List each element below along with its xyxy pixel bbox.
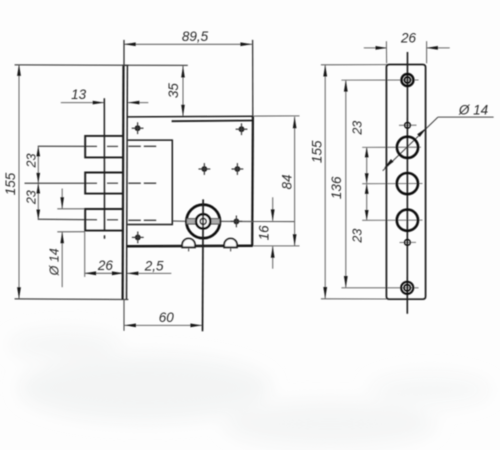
- svg-text:23: 23: [351, 229, 365, 244]
- svg-text:23: 23: [24, 154, 38, 169]
- svg-text:13: 13: [71, 87, 87, 102]
- svg-text:16: 16: [256, 225, 271, 241]
- svg-text:23: 23: [351, 121, 365, 136]
- svg-text:155: 155: [3, 172, 18, 195]
- svg-text:23: 23: [24, 190, 38, 205]
- svg-text:Ø 14: Ø 14: [458, 102, 488, 117]
- svg-text:155: 155: [309, 140, 324, 163]
- svg-text:26: 26: [400, 30, 417, 45]
- svg-text:60: 60: [159, 310, 175, 325]
- svg-text:26: 26: [97, 258, 114, 273]
- svg-text:84: 84: [279, 174, 294, 189]
- svg-text:136: 136: [329, 176, 344, 199]
- svg-text:Ø 14: Ø 14: [48, 248, 62, 276]
- svg-text:89,5: 89,5: [182, 29, 209, 44]
- svg-text:35: 35: [166, 83, 181, 99]
- svg-text:2,5: 2,5: [144, 258, 164, 273]
